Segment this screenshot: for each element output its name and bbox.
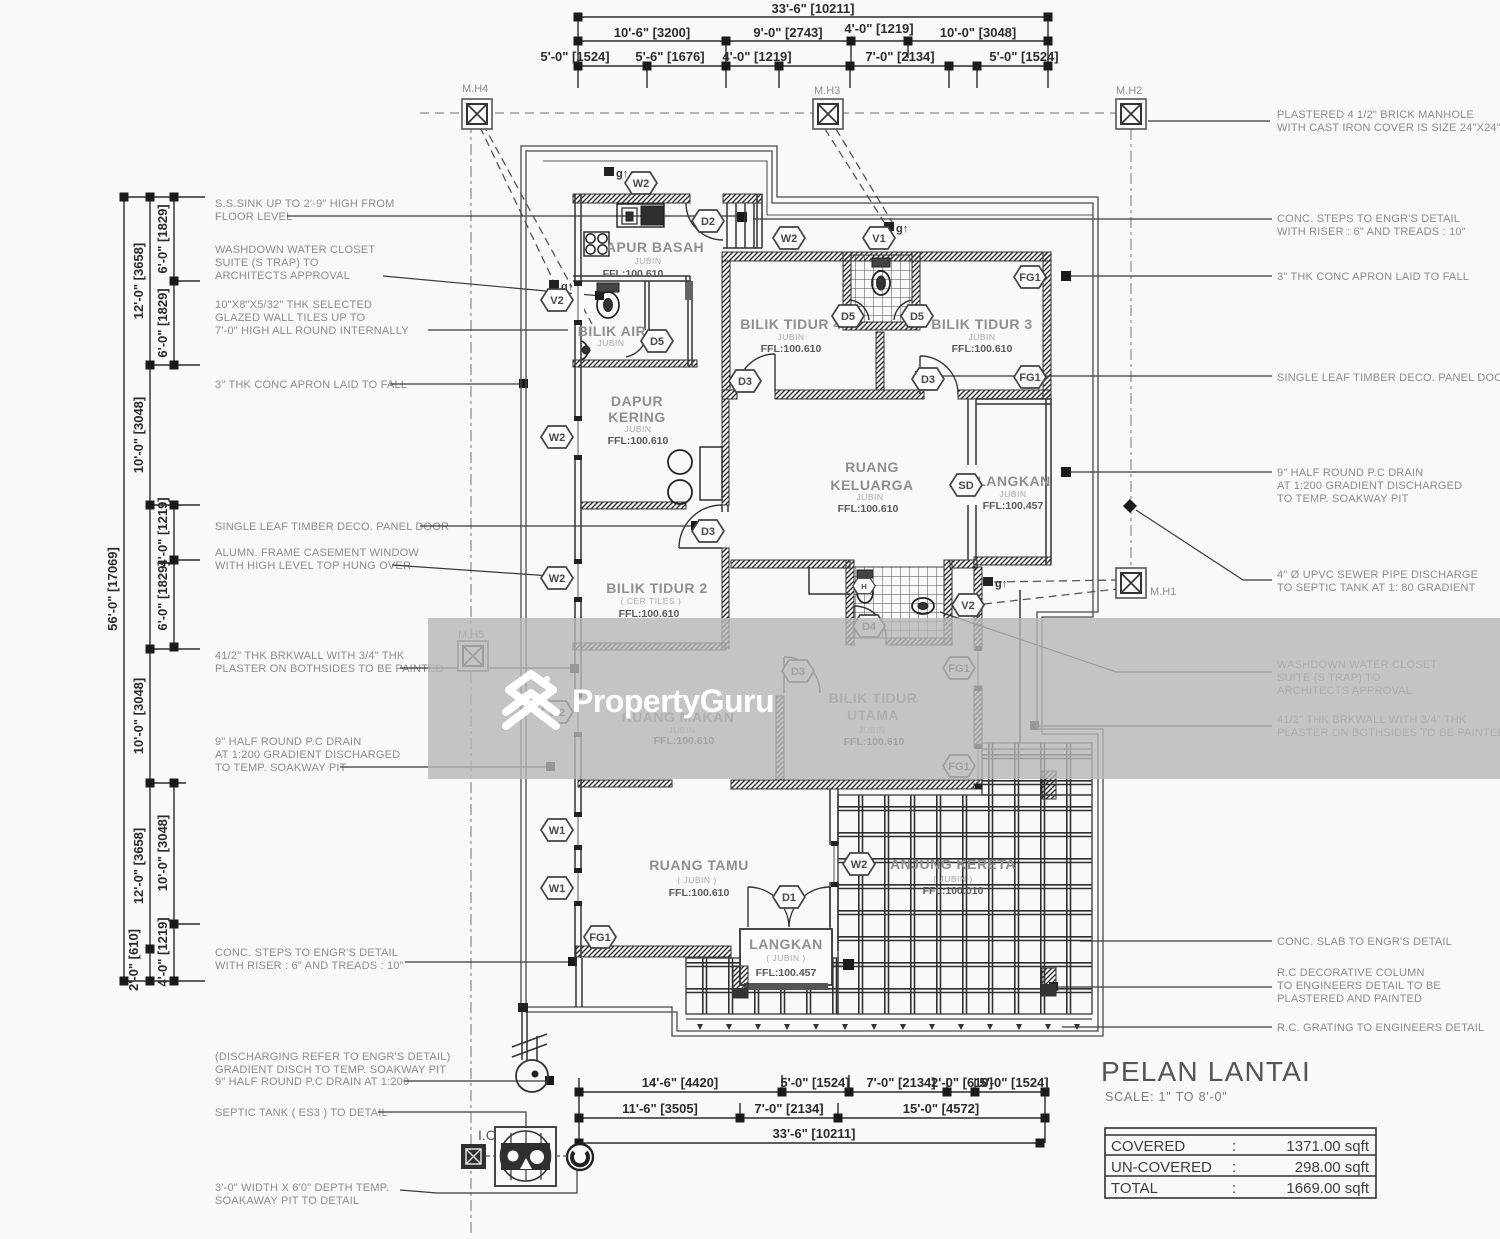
svg-text:KELUARGA: KELUARGA — [830, 477, 913, 493]
svg-text:FG1: FG1 — [1019, 272, 1040, 284]
svg-text:JUBIN: JUBIN — [624, 424, 651, 434]
svg-text:5'-0" [1524]: 5'-0" [1524] — [540, 49, 609, 64]
svg-text:4'-0" [1219]: 4'-0" [1219] — [722, 49, 791, 64]
svg-text:56'-0" [17069]: 56'-0" [17069] — [105, 547, 120, 631]
svg-text:FG1: FG1 — [589, 932, 610, 944]
svg-text:33'-6" [10211]: 33'-6" [10211] — [772, 1, 855, 16]
svg-text:WITH RISER : 6" AND TREADS :: WITH RISER : 6" AND TREADS : 10" — [215, 960, 404, 972]
svg-text:6'-0" [1829]: 6'-0" [1829] — [155, 561, 170, 630]
svg-text:FFL:100.610: FFL:100.610 — [952, 343, 1013, 355]
svg-text:3'-0" WIDTH X 6'0" DEPTH TEMP.: 3'-0" WIDTH X 6'0" DEPTH TEMP. — [215, 1182, 389, 1194]
svg-text:D3: D3 — [921, 374, 935, 386]
svg-text::: : — [1232, 1138, 1236, 1155]
svg-text:FLOOR LEVEL: FLOOR LEVEL — [215, 211, 292, 223]
svg-text:4" Ø UPVC SEWER PIPE DISCHARGE: 4" Ø UPVC SEWER PIPE DISCHARGE — [1277, 569, 1478, 581]
svg-text:WITH CAST IRON COVER IS SIZE 2: WITH CAST IRON COVER IS SIZE 24"X24" — [1277, 122, 1500, 134]
svg-text:CONC. SLAB TO ENGR'S DETAIL: CONC. SLAB TO ENGR'S DETAIL — [1277, 936, 1452, 948]
svg-text:SUITE (S TRAP) TO: SUITE (S TRAP) TO — [215, 257, 319, 269]
svg-text:FG1: FG1 — [1019, 372, 1040, 384]
svg-text:D2: D2 — [701, 216, 715, 228]
svg-text:PLASTERED AND PAINTED: PLASTERED AND PAINTED — [1277, 993, 1422, 1005]
svg-text:1669.00 sqft: 1669.00 sqft — [1286, 1180, 1369, 1197]
svg-text:R.C. GRATING TO ENGINEERS DETA: R.C. GRATING TO ENGINEERS DETAIL — [1277, 1022, 1484, 1034]
svg-text:12'-0" [3658]: 12'-0" [3658] — [131, 243, 146, 319]
svg-text:4'-0" [1219]: 4'-0" [1219] — [844, 21, 913, 36]
svg-text:FFL:100.610: FFL:100.610 — [838, 503, 899, 515]
svg-text:10"X8"X5/32" THK SELECTED: 10"X8"X5/32" THK SELECTED — [215, 299, 372, 311]
svg-text:4'-0" [1219]: 4'-0" [1219] — [155, 497, 170, 566]
svg-text:TO ENGINEERS DETAIL TO BE: TO ENGINEERS DETAIL TO BE — [1277, 980, 1441, 992]
svg-text:W2: W2 — [851, 859, 868, 871]
svg-text:( JUBIN ): ( JUBIN ) — [766, 953, 805, 963]
svg-text:S.S.SINK UP TO 2'-9" HIGH FROM: S.S.SINK UP TO 2'-9" HIGH FROM — [215, 198, 395, 210]
svg-text:WITH HIGH LEVEL TOP HUNG OVER: WITH HIGH LEVEL TOP HUNG OVER — [215, 560, 411, 572]
svg-text:TO TEMP. SOAKWAY PIT: TO TEMP. SOAKWAY PIT — [215, 762, 347, 774]
svg-text:BILIK TIDUR 3: BILIK TIDUR 3 — [931, 316, 1032, 332]
svg-text:JUBIN: JUBIN — [597, 338, 624, 348]
svg-text:5'-0" [1524]: 5'-0" [1524] — [979, 1075, 1048, 1090]
svg-text:14'-6" [4420]: 14'-6" [4420] — [642, 1075, 718, 1090]
svg-text:DAPUR: DAPUR — [611, 393, 663, 409]
svg-text:BILIK TIDUR 2: BILIK TIDUR 2 — [606, 580, 707, 596]
svg-text:W2: W2 — [549, 573, 566, 585]
svg-text:10'-0" [3048]: 10'-0" [3048] — [155, 815, 170, 891]
svg-text:SINGLE LEAF TIMBER DECO. PANEL: SINGLE LEAF TIMBER DECO. PANEL DOOR — [215, 521, 449, 533]
svg-text:FFL:100.457: FFL:100.457 — [983, 500, 1044, 512]
svg-text:RUANG TAMU: RUANG TAMU — [649, 857, 749, 873]
svg-text:SOAKAWAY PIT TO DETAIL: SOAKAWAY PIT TO DETAIL — [215, 1195, 359, 1207]
svg-text:5'-0" [1524]: 5'-0" [1524] — [780, 1075, 849, 1090]
svg-text:M.H3: M.H3 — [814, 85, 840, 97]
svg-text:AT 1:200 GRADIENT DISCHARGED: AT 1:200 GRADIENT DISCHARGED — [1277, 480, 1462, 492]
svg-text:LANGKAN: LANGKAN — [749, 936, 823, 952]
svg-text:12'-0" [3658]: 12'-0" [3658] — [131, 828, 146, 904]
svg-text:298.00 sqft: 298.00 sqft — [1295, 1159, 1370, 1176]
svg-text:V2: V2 — [550, 295, 563, 307]
svg-text:ARCHITECTS APPROVAL: ARCHITECTS APPROVAL — [215, 270, 350, 282]
svg-text:GLAZED WALL TILES UP TO: GLAZED WALL TILES UP TO — [215, 312, 366, 324]
svg-text:(DISCHARGING REFER TO ENGR'S D: (DISCHARGING REFER TO ENGR'S DETAIL) — [215, 1051, 450, 1063]
svg-text:RUANG: RUANG — [845, 459, 899, 475]
svg-text:9" HALF ROUND P.C DRAIN AT 1:2: 9" HALF ROUND P.C DRAIN AT 1:200 — [215, 1076, 409, 1088]
svg-text:CONC. STEPS TO ENGR'S DETAIL: CONC. STEPS TO ENGR'S DETAIL — [215, 947, 398, 959]
svg-text:4'-0" [1219]: 4'-0" [1219] — [155, 917, 170, 986]
svg-text:9" HALF ROUND P.C DRAIN: 9" HALF ROUND P.C DRAIN — [215, 736, 361, 748]
svg-text:2'-0" [610]: 2'-0" [610] — [126, 929, 141, 991]
svg-text:V2: V2 — [961, 600, 974, 612]
svg-text:g↑: g↑ — [896, 223, 908, 235]
svg-text:JUBIN: JUBIN — [634, 256, 661, 266]
svg-text:10'-0" [3048]: 10'-0" [3048] — [131, 397, 146, 473]
svg-text::: : — [1232, 1159, 1236, 1176]
svg-text:D3: D3 — [738, 376, 752, 388]
svg-text:7'-0" [2134]: 7'-0" [2134] — [754, 1101, 823, 1116]
svg-text:D1: D1 — [782, 892, 796, 904]
svg-text::: : — [1232, 1180, 1236, 1197]
svg-text:WITH RISER : 6" AND TREADS :: WITH RISER : 6" AND TREADS : 10" — [1277, 226, 1466, 238]
svg-text:M.H1: M.H1 — [1150, 586, 1176, 598]
svg-text:9" HALF ROUND P.C DRAIN: 9" HALF ROUND P.C DRAIN — [1277, 467, 1423, 479]
svg-text:10'-0" [3048]: 10'-0" [3048] — [131, 678, 146, 754]
svg-text:JUBIN: JUBIN — [777, 332, 804, 342]
svg-text:WASHDOWN WATER CLOSET: WASHDOWN WATER CLOSET — [215, 244, 375, 256]
svg-text:7'-0" [2134]: 7'-0" [2134] — [866, 1075, 935, 1090]
svg-text:FFL:100.457: FFL:100.457 — [756, 967, 817, 979]
svg-text:TOTAL: TOTAL — [1111, 1180, 1158, 1197]
svg-text:SD: SD — [958, 480, 973, 492]
svg-text:( JUBIN ): ( JUBIN ) — [677, 875, 716, 885]
svg-text:D5: D5 — [841, 311, 855, 323]
svg-text:PELAN LANTAI: PELAN LANTAI — [1101, 1056, 1311, 1087]
svg-text:CONC. STEPS TO ENGR'S DETAIL: CONC. STEPS TO ENGR'S DETAIL — [1277, 213, 1460, 225]
svg-text:3" THK CONC APRON LAID TO FALL: 3" THK CONC APRON LAID TO FALL — [215, 379, 407, 391]
svg-text:I.C: I.C — [478, 1127, 496, 1143]
svg-text:H: H — [861, 582, 867, 591]
svg-text:PLASTER ON BOTHSIDES TO BE PA: PLASTER ON BOTHSIDES TO BE PAINTED — [215, 663, 444, 675]
svg-text:FFL:100.610: FFL:100.610 — [669, 887, 730, 899]
svg-text:COVERED: COVERED — [1111, 1138, 1185, 1155]
svg-text:33'-6" [10211]: 33'-6" [10211] — [773, 1126, 856, 1141]
svg-text:KERING: KERING — [608, 409, 665, 425]
svg-text:TO SEPTIC TANK AT 1: 80 GRADIE: TO SEPTIC TANK AT 1: 80 GRADIENT — [1277, 582, 1476, 594]
svg-text:5'-6" [1676]: 5'-6" [1676] — [635, 49, 704, 64]
svg-text:M.H2: M.H2 — [1116, 85, 1142, 97]
svg-text:LANGKAN: LANGKAN — [977, 473, 1051, 489]
svg-text:BILIK AIR: BILIK AIR — [578, 323, 647, 339]
svg-text:ALUMN. FRAME CASEMENT WINDOW: ALUMN. FRAME CASEMENT WINDOW — [215, 547, 419, 559]
svg-text:g↑: g↑ — [616, 168, 628, 180]
svg-text:SEPTIC TANK ( ES3 ) TO DETAIL: SEPTIC TANK ( ES3 ) TO DETAIL — [215, 1107, 388, 1119]
svg-text:PLASTERED 4 1/2" BRICK MANHOLE: PLASTERED 4 1/2" BRICK MANHOLE — [1277, 109, 1474, 121]
svg-text:JUBIN: JUBIN — [856, 492, 883, 502]
svg-text:1371.00 sqft: 1371.00 sqft — [1286, 1138, 1369, 1155]
svg-text:9'-0" [2743]: 9'-0" [2743] — [753, 25, 822, 40]
svg-text:( CER TILES ): ( CER TILES ) — [621, 596, 682, 606]
svg-text:5'-0" [1524]: 5'-0" [1524] — [989, 49, 1058, 64]
svg-text:JUBIN: JUBIN — [968, 332, 995, 342]
svg-text:W1: W1 — [549, 883, 566, 895]
svg-text:FFL:100.610: FFL:100.610 — [603, 268, 664, 280]
svg-text:D3: D3 — [701, 526, 715, 538]
svg-text:PropertyGuru: PropertyGuru — [572, 683, 774, 719]
svg-text:JUBIN: JUBIN — [999, 489, 1026, 499]
svg-text:D5: D5 — [910, 311, 924, 323]
svg-text:SINGLE LEAF TIMBER DECO. PANEL: SINGLE LEAF TIMBER DECO. PANEL DOOR — [1277, 372, 1500, 384]
svg-text:W2: W2 — [549, 432, 566, 444]
svg-text:ANJUNG KERETA: ANJUNG KERETA — [890, 856, 1016, 872]
svg-text:W2: W2 — [633, 178, 650, 190]
svg-text:SCALE: 1" TO 8'-0": SCALE: 1" TO 8'-0" — [1105, 1090, 1227, 1104]
svg-text:W2: W2 — [781, 233, 798, 245]
svg-text:11'-6" [3505]: 11'-6" [3505] — [622, 1101, 698, 1116]
svg-text:10'-6" [3200]: 10'-6" [3200] — [614, 25, 690, 40]
svg-text:15'-0" [4572]: 15'-0" [4572] — [903, 1101, 979, 1116]
svg-text:6'-0" [1829]: 6'-0" [1829] — [155, 204, 170, 273]
svg-text:41/2" THK BRKWALL WITH 3/4" TH: 41/2" THK BRKWALL WITH 3/4" THK — [215, 650, 405, 662]
svg-text:M.H4: M.H4 — [462, 83, 488, 95]
svg-text:D5: D5 — [650, 336, 664, 348]
svg-text:UN-COVERED: UN-COVERED — [1111, 1159, 1212, 1176]
svg-text:7'-0" [2134]: 7'-0" [2134] — [865, 49, 934, 64]
svg-text:W1: W1 — [549, 825, 566, 837]
svg-text:7'-0" HIGH ALL ROUND INTERNALL: 7'-0" HIGH ALL ROUND INTERNALLY — [215, 325, 409, 337]
svg-text:FFL:100.610: FFL:100.610 — [608, 435, 669, 447]
svg-text:V1: V1 — [872, 233, 885, 245]
svg-text:R.C DECORATIVE COLUMN: R.C DECORATIVE COLUMN — [1277, 967, 1425, 979]
svg-text:FFL:100.610: FFL:100.610 — [761, 343, 822, 355]
svg-text:GRADIENT DISCH TO TEMP. SOAKWA: GRADIENT DISCH TO TEMP. SOAKWAY PIT — [215, 1064, 446, 1076]
svg-text:10'-0" [3048]: 10'-0" [3048] — [940, 25, 1016, 40]
svg-text:g↑: g↑ — [995, 578, 1007, 590]
svg-text:3" THK CONC APRON LAID TO FALL: 3" THK CONC APRON LAID TO FALL — [1277, 271, 1469, 283]
svg-text:APUR BASAH: APUR BASAH — [606, 239, 704, 255]
svg-text:( JUBIN ): ( JUBIN ) — [933, 874, 972, 884]
svg-text:FFL:100.010: FFL:100.010 — [923, 885, 984, 897]
svg-text:6'-0" [1829]: 6'-0" [1829] — [155, 288, 170, 357]
svg-text:BILIK TIDUR 4: BILIK TIDUR 4 — [740, 316, 841, 332]
svg-text:AT 1:200 GRADIENT DISCHARGED: AT 1:200 GRADIENT DISCHARGED — [215, 749, 400, 761]
svg-text:TO TEMP. SOAKWAY PIT: TO TEMP. SOAKWAY PIT — [1277, 493, 1409, 505]
